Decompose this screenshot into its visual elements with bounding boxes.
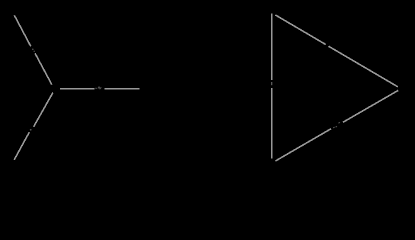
wye branch Z1 (upper-left wire, inner segment)	[35, 53, 52, 84]
delta edge Za label remnant	[271, 82, 273, 85]
wye branch Z1 label remnant	[32, 49, 35, 53]
delta edge Zc (bottom wire, left segment)	[275, 129, 331, 161]
wye branch Z2 (lower-left wire, outer segment)	[14, 132, 29, 160]
wye branch Z3 (right horizontal wire, outer segment)	[104, 88, 139, 90]
delta edge Zb (top wire, right segment)	[329, 46, 398, 87]
wye branch Z2 (lower-left wire, inner segment)	[34, 93, 53, 127]
delta edge Za (left vertical wire, upper segment)	[271, 13, 273, 80]
delta edge Zb (top wire, left segment)	[275, 15, 325, 45]
delta edge Zc (bottom wire, right segment)	[343, 90, 398, 122]
delta edge Za (left vertical wire, lower segment)	[271, 88, 273, 159]
delta edge Zc label remnant	[333, 122, 340, 128]
wye branch Z2 label remnant	[30, 129, 32, 131]
wye branch Z1 (upper-left wire, outer segment)	[14, 15, 30, 46]
wye branch Z3 (right horizontal wire, inner segment)	[60, 88, 95, 90]
wye branch Z3 label remnant	[95, 87, 101, 89]
